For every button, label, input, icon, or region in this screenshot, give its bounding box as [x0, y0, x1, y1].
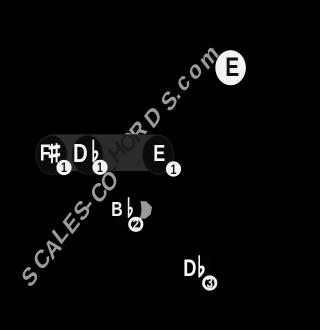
svg-text:E: E: [153, 141, 165, 167]
svg-text:E: E: [225, 53, 239, 83]
svg-text:1: 1: [97, 160, 103, 176]
svg-text:1: 1: [171, 161, 177, 177]
svg-text:1: 1: [61, 160, 67, 176]
svg-text:2: 2: [133, 215, 139, 232]
svg-text:3: 3: [206, 274, 212, 291]
svg-text:F: F: [40, 140, 51, 166]
svg-text:B: B: [111, 197, 122, 220]
svg-text:D: D: [183, 256, 196, 282]
svg-text:D: D: [73, 138, 88, 167]
